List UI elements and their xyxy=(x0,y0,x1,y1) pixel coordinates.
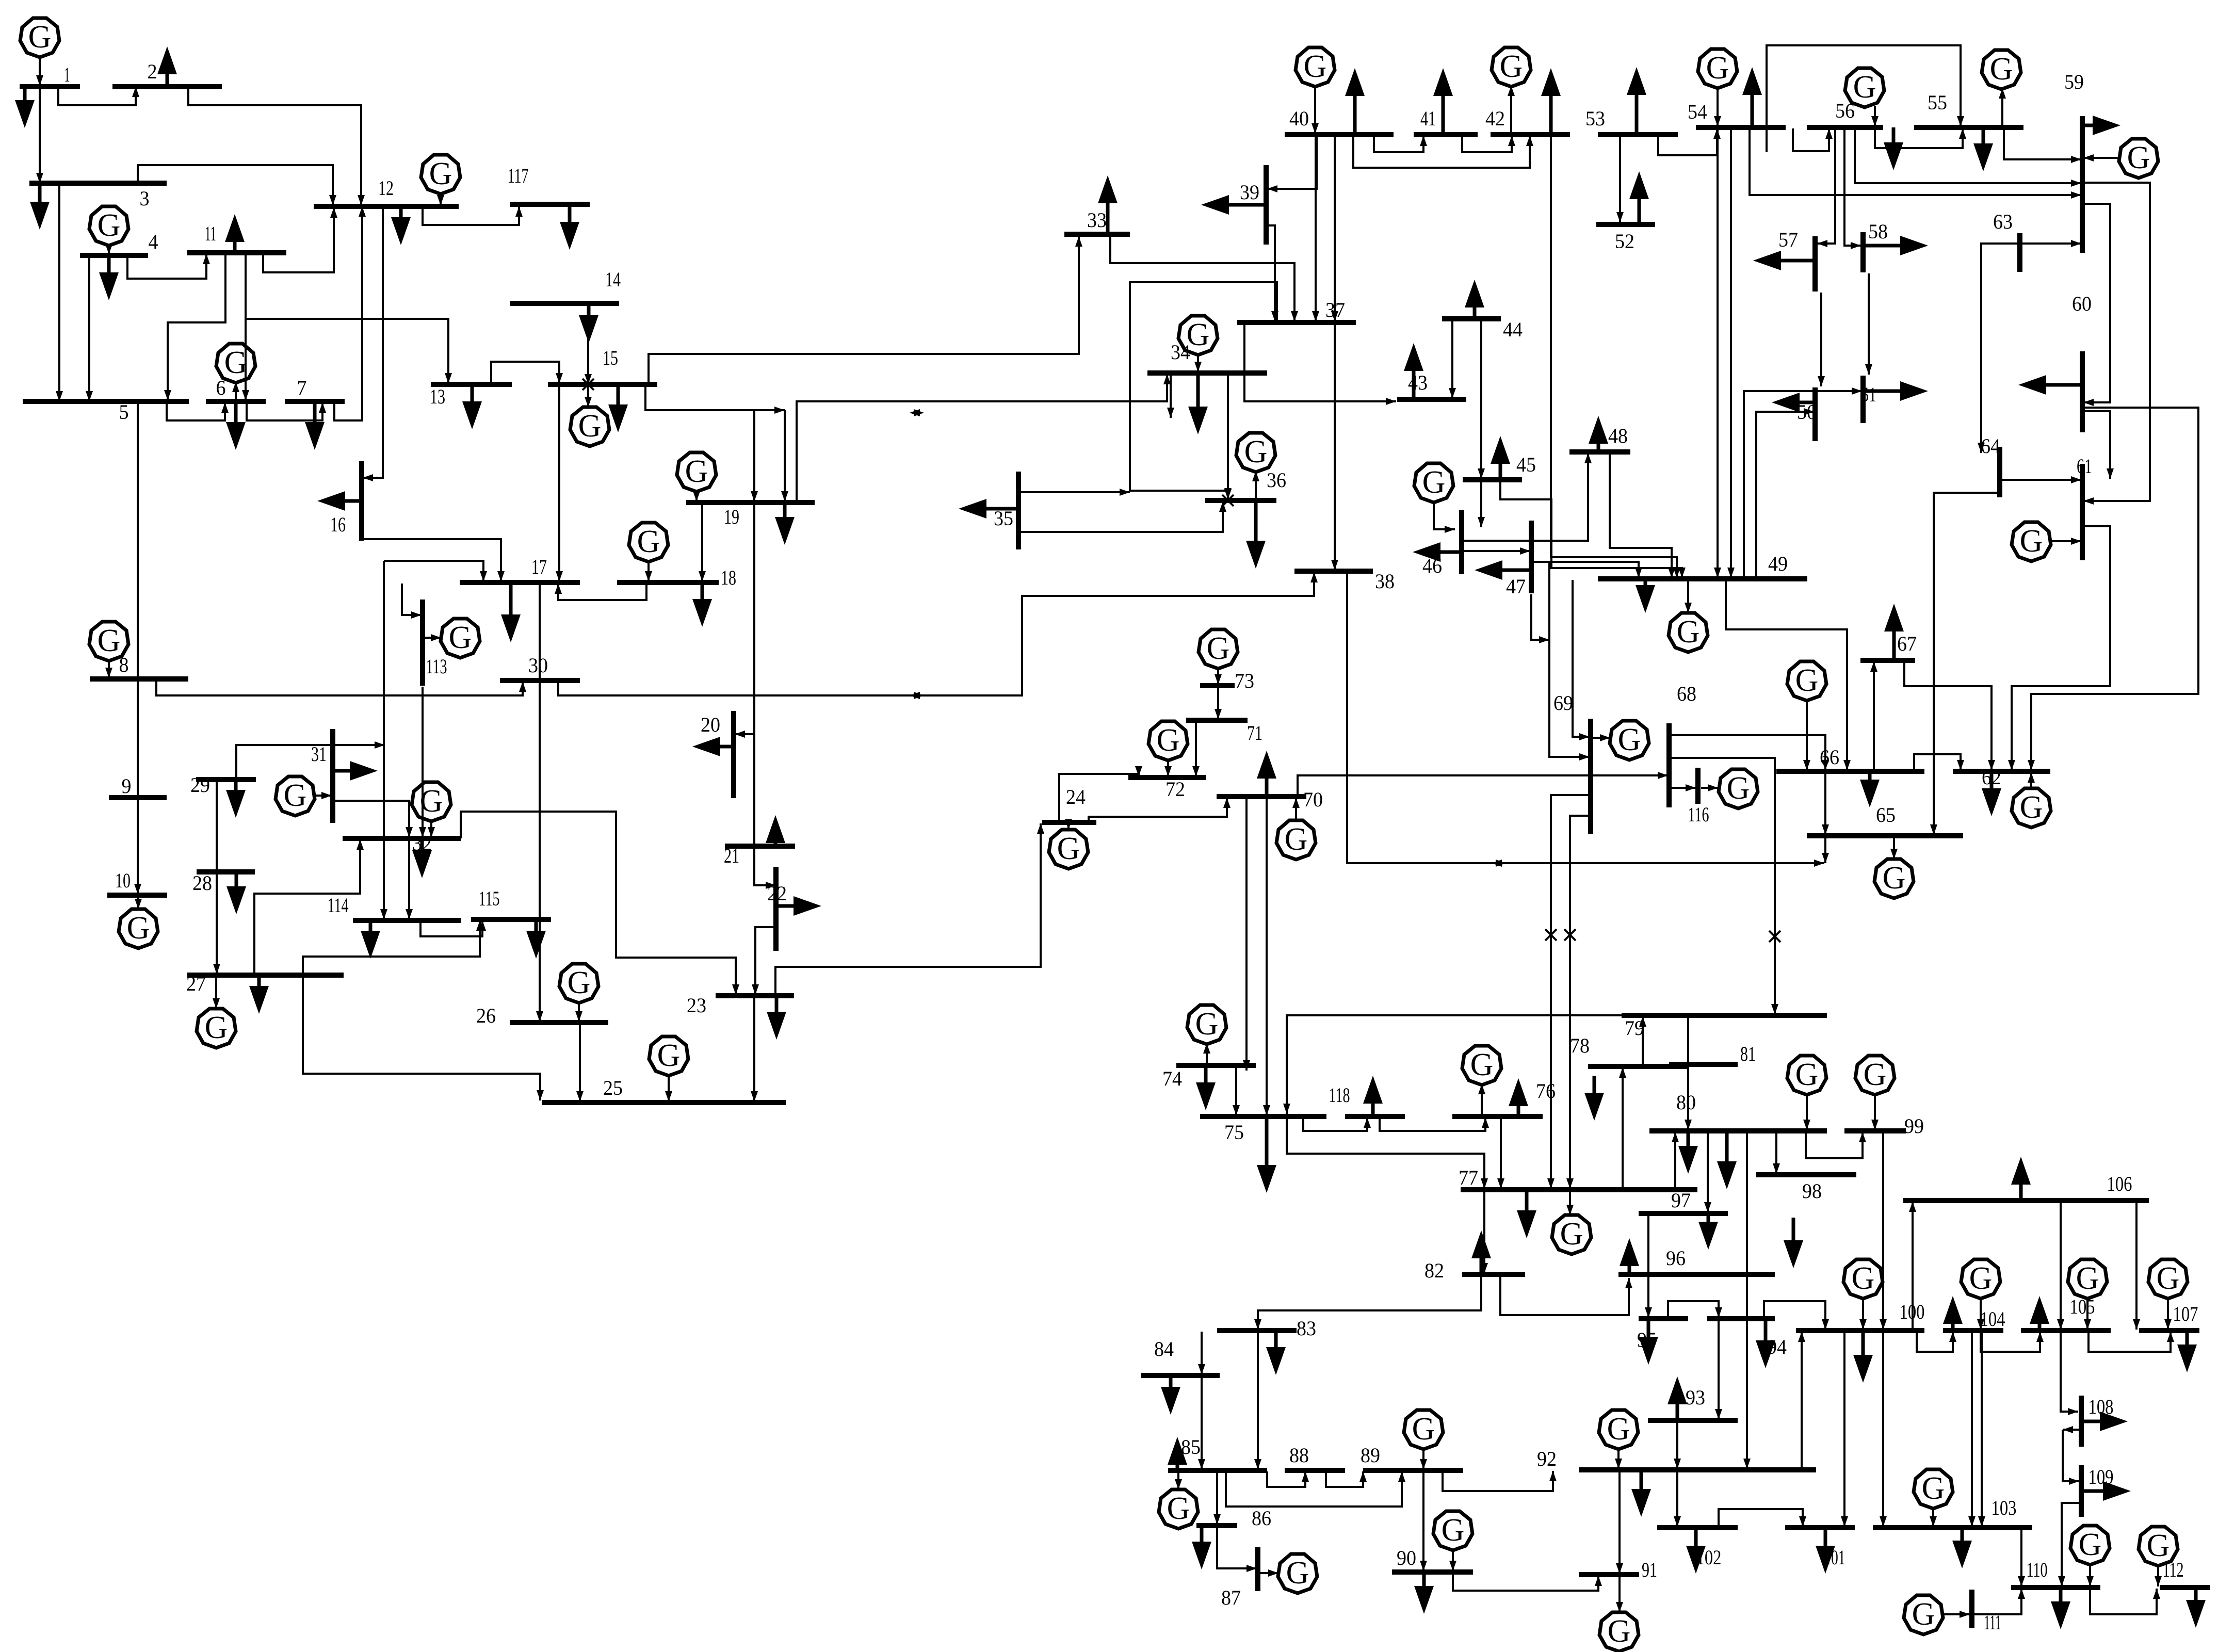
svg-text:G: G xyxy=(2076,1261,2099,1296)
wire 76-77 xyxy=(1497,1117,1504,1189)
svg-text:73: 73 xyxy=(1235,669,1254,692)
svg-text:G: G xyxy=(1167,1491,1190,1526)
svg-text:56: 56 xyxy=(1835,99,1855,122)
svg-text:107: 107 xyxy=(2173,1302,2198,1325)
wire 85-89 xyxy=(1226,1471,1405,1507)
wire 24-70 xyxy=(1089,798,1231,822)
wire 23-32 xyxy=(461,812,739,995)
load arrow bus 94 xyxy=(1756,1319,1775,1368)
generator G at bus 15 xyxy=(570,407,609,446)
svg-text:115: 115 xyxy=(479,887,500,910)
svg-text:G: G xyxy=(2020,790,2043,825)
wire 29-31 xyxy=(236,741,385,779)
bus 75 xyxy=(1200,1114,1326,1119)
wire 13-15 xyxy=(491,362,563,384)
wire 42-37 xyxy=(1331,136,1338,321)
load arrow bus 112 xyxy=(2186,1588,2206,1628)
svg-text:G: G xyxy=(578,409,602,444)
bus 35 (vertical) xyxy=(1016,472,1021,549)
generator G at bus 100 xyxy=(1843,1259,1883,1299)
wire 25-26 xyxy=(576,1024,584,1102)
bus 36 xyxy=(1205,498,1276,503)
bus 3 xyxy=(29,181,167,186)
bus 94 xyxy=(1707,1316,1775,1321)
load arrow bus 41 xyxy=(1433,68,1453,135)
bus 53 xyxy=(1598,132,1678,137)
svg-text:85: 85 xyxy=(1181,1435,1201,1459)
bus 38 xyxy=(1294,569,1373,574)
wire 24-72 xyxy=(1059,766,1142,822)
wire 35-36 xyxy=(1018,501,1226,532)
svg-text:83: 83 xyxy=(1297,1317,1316,1340)
wire 68-116 xyxy=(1670,784,1696,791)
generator G at bus 76 xyxy=(1462,1046,1501,1085)
bus 91 xyxy=(1579,1572,1639,1577)
svg-text:68: 68 xyxy=(1677,682,1696,705)
wire 103-110 xyxy=(2018,1529,2025,1586)
load arrow bus 97 xyxy=(1698,1213,1718,1250)
svg-text:6: 6 xyxy=(216,376,226,399)
wire 77-82 xyxy=(1481,1191,1488,1273)
svg-text:46: 46 xyxy=(1422,554,1442,577)
wire 51-58 xyxy=(1865,273,1872,375)
load arrow bus 11 xyxy=(225,214,245,253)
wire 74-75 xyxy=(1233,1066,1240,1115)
wire G-100 xyxy=(1859,1298,1867,1330)
bus 109 (vertical) xyxy=(2079,1465,2084,1517)
svg-text:102: 102 xyxy=(1696,1546,1722,1569)
bus 25 xyxy=(542,1100,786,1105)
wire G-56 xyxy=(1871,106,1879,126)
load arrow bus 77 xyxy=(1517,1190,1536,1238)
svg-text:14: 14 xyxy=(605,268,621,291)
svg-text:86: 86 xyxy=(1252,1507,1271,1530)
svg-text:G: G xyxy=(1500,49,1523,84)
wire 56-59a xyxy=(1855,128,2081,187)
svg-text:114: 114 xyxy=(328,894,349,917)
svg-text:111: 111 xyxy=(1984,1611,2001,1634)
wire G-107 xyxy=(2164,1298,2172,1330)
bus 88 xyxy=(1285,1468,1345,1473)
bus 47 (vertical) xyxy=(1529,521,1534,593)
svg-text:G: G xyxy=(28,20,52,55)
bus 117 xyxy=(510,202,590,207)
svg-text:G: G xyxy=(1304,49,1327,84)
wire 61-62 xyxy=(2008,526,2110,770)
bus 80 xyxy=(1649,1128,1827,1133)
wire 37-34 xyxy=(1130,282,1277,498)
wire G-6 xyxy=(232,382,239,400)
load arrow bus 50 xyxy=(1772,393,1815,412)
wire G-8 xyxy=(105,660,112,678)
wire G-87 xyxy=(1259,1569,1278,1577)
svg-text:G: G xyxy=(1852,1261,1875,1296)
bus 78 xyxy=(1588,1064,1688,1069)
svg-text:113: 113 xyxy=(426,655,447,678)
wire 6-7 xyxy=(247,401,326,420)
bus 23 xyxy=(716,993,794,998)
transformer marker at 2380,970 xyxy=(1222,495,1234,506)
wire G-10 xyxy=(135,896,142,909)
svg-text:13: 13 xyxy=(430,385,445,408)
bus 79 xyxy=(1622,1013,1827,1018)
svg-text:42: 42 xyxy=(1485,107,1505,130)
load arrow bus 56 xyxy=(1884,127,1903,170)
wire 49-54b xyxy=(1727,128,1735,578)
svg-text:110: 110 xyxy=(2027,1558,2048,1581)
generator G at bus 34 xyxy=(1178,316,1218,355)
load arrow bus 84 xyxy=(1161,1375,1180,1415)
load arrow bus 23 xyxy=(767,996,786,1040)
bus 40 xyxy=(1285,132,1394,137)
wire 5-6 xyxy=(167,401,229,420)
svg-text:G: G xyxy=(1795,1057,1819,1092)
load arrow bus 27 xyxy=(249,975,269,1014)
wire 27-115 xyxy=(303,920,483,974)
bus 49 xyxy=(1598,576,1807,581)
svg-text:G: G xyxy=(1853,70,1876,105)
svg-text:G: G xyxy=(1057,831,1080,866)
transformer marker at 3440,1815 xyxy=(1769,931,1780,942)
bus 68 (vertical) xyxy=(1666,723,1672,807)
generator G at bus 87 xyxy=(1278,1554,1317,1593)
svg-text:88: 88 xyxy=(1289,1444,1309,1467)
wire 19-aux xyxy=(781,410,788,501)
wire 33-37 xyxy=(1110,235,1298,321)
bus 37 xyxy=(1237,320,1356,325)
wire 62-66 xyxy=(1914,754,1964,771)
svg-text:1: 1 xyxy=(64,63,70,86)
wire G-92 xyxy=(1615,1448,1622,1469)
bus 100 xyxy=(1796,1328,1924,1333)
bus 51 (vertical) xyxy=(1860,376,1866,423)
bus 44 xyxy=(1442,316,1501,321)
wire 14-15 xyxy=(585,303,592,384)
svg-text:77: 77 xyxy=(1459,1166,1478,1189)
svg-text:75: 75 xyxy=(1224,1121,1244,1144)
wire 15-19 xyxy=(645,384,785,414)
svg-text:7: 7 xyxy=(297,376,307,399)
svg-text:98: 98 xyxy=(1802,1179,1822,1203)
svg-text:49: 49 xyxy=(1768,552,1788,575)
wire 104-105 xyxy=(1981,1332,2044,1352)
svg-text:25: 25 xyxy=(603,1076,623,1099)
wire 56-57 xyxy=(1817,128,1835,247)
wire 80-98 xyxy=(1773,1132,1780,1174)
bus 96 xyxy=(1618,1272,1775,1277)
load arrow bus 83 xyxy=(1266,1331,1286,1375)
load arrow bus 105 xyxy=(2030,1296,2049,1331)
generator G at bus 112 xyxy=(2139,1527,2178,1566)
wire 1-2 xyxy=(58,87,139,105)
svg-text:47: 47 xyxy=(1506,575,1526,598)
wire 35-37 xyxy=(1018,489,1130,496)
bus 15 xyxy=(548,382,657,387)
svg-text:69: 69 xyxy=(1553,691,1573,715)
bus 85 xyxy=(1168,1468,1267,1473)
svg-text:91: 91 xyxy=(1642,1558,1657,1581)
wire 56-58 xyxy=(1844,128,1861,249)
bus 116 (vertical) xyxy=(1695,768,1701,804)
generator G at bus 27 xyxy=(197,1009,236,1048)
load arrow bus 2 xyxy=(157,46,177,87)
generator G at bus 104 xyxy=(1961,1259,2000,1299)
generator G at bus 92 xyxy=(1599,1410,1638,1449)
generator G at bus 90 xyxy=(1433,1511,1472,1550)
svg-text:54: 54 xyxy=(1688,100,1707,123)
svg-text:32: 32 xyxy=(412,832,432,855)
svg-text:112: 112 xyxy=(2163,1558,2184,1581)
svg-text:4: 4 xyxy=(149,230,158,253)
wire 80-96-94-92 xyxy=(1743,1132,1751,1469)
load arrow bus 29 xyxy=(226,780,246,818)
svg-text:87: 87 xyxy=(1221,1586,1241,1609)
load arrow bus 80.2 xyxy=(1678,1131,1698,1174)
svg-text:G: G xyxy=(1795,663,1819,698)
wire G-18 xyxy=(645,561,652,581)
wire 110-112 xyxy=(2090,1589,2160,1614)
wire 6-11 xyxy=(242,254,249,400)
svg-text:16: 16 xyxy=(330,513,346,536)
load arrow bus 102 xyxy=(1686,1528,1706,1574)
svg-text:15: 15 xyxy=(603,346,618,369)
wire G-54 xyxy=(1714,87,1721,126)
svg-text:71: 71 xyxy=(1247,721,1262,744)
bus 46 (vertical) xyxy=(1459,510,1464,574)
load arrow bus 108 xyxy=(2081,1412,2128,1431)
svg-text:G: G xyxy=(685,454,708,489)
wire 101-102 xyxy=(1719,1509,1806,1528)
svg-text:57: 57 xyxy=(1778,228,1798,251)
svg-text:66: 66 xyxy=(1820,746,1839,769)
bus 63 (vertical) xyxy=(2017,233,2022,272)
wire 108-stub xyxy=(2063,1426,2081,1433)
wire G-77 xyxy=(1566,1191,1574,1215)
wire G-76 xyxy=(1478,1084,1485,1115)
wire G-32 xyxy=(428,820,435,837)
generator G at bus 40 xyxy=(1296,47,1335,87)
wire 91-92 xyxy=(1616,1471,1623,1574)
svg-text:94: 94 xyxy=(1767,1335,1787,1358)
generator G at bus 6 xyxy=(216,344,255,383)
svg-text:59: 59 xyxy=(2064,70,2084,93)
wire 47-69b xyxy=(1549,562,1590,760)
wire 54-59 xyxy=(1750,128,2081,199)
load arrow bus 114 xyxy=(361,920,380,959)
wire 47-69 xyxy=(1531,594,1549,643)
bus 98 xyxy=(1756,1172,1856,1177)
wire 52-53 xyxy=(1616,136,1624,222)
wire 3-5 xyxy=(56,183,63,401)
wire 8-30 xyxy=(156,680,526,695)
bus 62 xyxy=(1953,769,2050,774)
bus 52 xyxy=(1596,222,1655,227)
load arrow bus 21 xyxy=(766,815,785,846)
wire 60-62 xyxy=(2028,408,2198,770)
svg-text:65: 65 xyxy=(1876,803,1896,827)
svg-text:5: 5 xyxy=(119,400,129,424)
svg-text:24: 24 xyxy=(1066,785,1086,808)
bus 8 xyxy=(90,676,188,682)
svg-text:G: G xyxy=(1157,723,1180,758)
svg-text:108: 108 xyxy=(2089,1395,2114,1418)
svg-text:G: G xyxy=(429,156,452,191)
generator G at bus 19 xyxy=(677,452,716,492)
bus 101 xyxy=(1785,1525,1855,1530)
wire 46G xyxy=(1434,501,1455,533)
wire G-105 xyxy=(2084,1298,2091,1330)
wire 5-8-9-10 xyxy=(134,402,141,894)
wire 37-38 xyxy=(1331,323,1338,570)
bus 92 xyxy=(1579,1467,1816,1472)
wire 66-67 xyxy=(1870,661,1877,770)
bus 14 xyxy=(510,301,619,306)
bus 65 xyxy=(1807,833,1963,838)
wire 40-42 xyxy=(1353,136,1533,168)
load arrow bus 32 xyxy=(412,838,432,878)
wire 105-108 xyxy=(2061,1332,2078,1415)
bus 112 xyxy=(2160,1585,2210,1590)
bus 6 xyxy=(206,399,266,404)
load arrow bus 17 xyxy=(501,582,521,642)
bus 26 xyxy=(510,1020,608,1025)
transformer marker at 3043,1812 xyxy=(1564,929,1576,941)
wire 43-44 xyxy=(1449,320,1456,398)
load arrow bus 34 xyxy=(1188,373,1208,434)
wire 27-25 xyxy=(303,976,544,1100)
wire 12-16 xyxy=(363,206,383,481)
bus 87 (vertical) xyxy=(1255,1547,1260,1591)
svg-text:26: 26 xyxy=(476,1004,496,1027)
svg-text:28: 28 xyxy=(192,871,212,895)
wire 77-80 xyxy=(1672,1132,1679,1189)
wire 23-25 xyxy=(751,997,758,1102)
bus 66 xyxy=(1776,769,1924,774)
wire G-80 xyxy=(1803,1094,1810,1130)
wire 55-59 xyxy=(2004,128,2081,163)
svg-text:11: 11 xyxy=(205,222,216,245)
generator G at bus 73 xyxy=(1199,629,1238,669)
wire 94-100 xyxy=(1764,1301,1829,1330)
load arrow bus 4 xyxy=(99,255,119,300)
wire 49-69 xyxy=(1573,580,1590,740)
load arrow bus 86 xyxy=(1192,1526,1211,1569)
bus 28 xyxy=(197,869,255,874)
svg-text:21: 21 xyxy=(724,844,739,867)
svg-text:G: G xyxy=(657,1038,681,1073)
svg-text:64: 64 xyxy=(1981,434,2000,458)
wire 11-12 xyxy=(263,207,337,272)
wire 89-90 xyxy=(1420,1471,1427,1571)
bus 110 xyxy=(2011,1585,2100,1590)
wire 11-13 xyxy=(246,319,452,383)
load arrow bus 106 xyxy=(2011,1157,2031,1201)
svg-text:G: G xyxy=(1990,52,2013,87)
bus 114 xyxy=(353,918,461,923)
wire 32-114b xyxy=(406,839,413,919)
load arrow bus 14 xyxy=(579,303,598,343)
wire 15-17 xyxy=(556,384,563,581)
bus 103 xyxy=(1873,1525,2032,1530)
svg-text:G: G xyxy=(449,620,472,655)
load arrow bus 66 xyxy=(1860,771,1880,807)
wire 44-45 xyxy=(1478,320,1485,479)
bus 90 xyxy=(1392,1569,1473,1575)
wire 3-12 xyxy=(138,165,336,205)
generator G at bus 103 xyxy=(1914,1469,1953,1509)
generator G at bus 65 xyxy=(1874,859,1914,898)
svg-text:G: G xyxy=(284,778,307,813)
wire 54-56 xyxy=(1793,128,1833,151)
generator G at bus 10 xyxy=(119,909,158,948)
svg-text:G: G xyxy=(1608,1614,1631,1649)
load arrow bus 39 xyxy=(1201,195,1266,215)
load arrow bus 12 xyxy=(391,206,411,245)
transformer marker at 3006,1812 xyxy=(1545,929,1557,941)
load arrow bus 85 xyxy=(1168,1437,1187,1470)
load arrow bus 53 xyxy=(1627,67,1646,135)
wire 84-85 xyxy=(1198,1376,1205,1469)
generator G at bus 89 xyxy=(1404,1410,1443,1449)
svg-text:62: 62 xyxy=(1982,766,2001,789)
wire 46-48 xyxy=(1463,453,1592,541)
wire G-26 xyxy=(575,1002,582,1022)
wire 29-28-27 xyxy=(213,781,220,974)
wire 62-67 xyxy=(1904,661,1995,770)
svg-text:G: G xyxy=(1607,1412,1630,1447)
wire G-116 xyxy=(1701,784,1718,791)
load arrow bus 46 xyxy=(1413,542,1462,562)
bus 73 xyxy=(1200,683,1235,688)
load arrow bus 44 xyxy=(1465,280,1484,319)
wire 46-47 xyxy=(1463,547,1530,555)
wire 17-stub xyxy=(384,561,487,581)
wire G-55 xyxy=(1999,88,2006,126)
wire 94-95 xyxy=(1668,1301,1722,1318)
bus 29 xyxy=(196,777,256,782)
bus 1 xyxy=(20,84,80,89)
load arrow bus 45 xyxy=(1491,436,1510,480)
generator G at bus 59 xyxy=(2119,139,2158,178)
svg-text:G: G xyxy=(1727,771,1750,806)
wire G-72 xyxy=(1164,759,1172,776)
wire 85-86 xyxy=(1213,1471,1221,1525)
wire 68-81 xyxy=(1670,758,1778,1014)
generator G at bus 46 xyxy=(1414,463,1453,503)
svg-text:106: 106 xyxy=(2107,1172,2132,1195)
wire 40-37 xyxy=(1312,136,1319,321)
svg-text:30: 30 xyxy=(528,654,548,677)
wire G-27 xyxy=(213,976,220,1009)
load arrow bus 7 xyxy=(305,401,325,450)
wire 17-30 xyxy=(536,584,543,1022)
svg-text:103: 103 xyxy=(1992,1496,2017,1519)
load arrow bus 78 xyxy=(1584,1076,1604,1121)
wire 50-57 xyxy=(1818,293,1825,386)
wire G-90 xyxy=(1449,1549,1456,1571)
svg-text:52: 52 xyxy=(1615,230,1634,253)
svg-text:G: G xyxy=(1883,861,1906,896)
svg-text:109: 109 xyxy=(2089,1465,2114,1488)
svg-text:78: 78 xyxy=(1570,1034,1590,1057)
svg-text:63: 63 xyxy=(1993,210,2013,233)
bus 106 xyxy=(1903,1198,2149,1203)
svg-text:2: 2 xyxy=(148,60,157,83)
load arrow bus 76 xyxy=(1509,1078,1528,1116)
wire 99-100 xyxy=(1880,1132,1887,1330)
wire 17-18 xyxy=(555,584,646,600)
load arrow bus 90 xyxy=(1414,1572,1434,1614)
